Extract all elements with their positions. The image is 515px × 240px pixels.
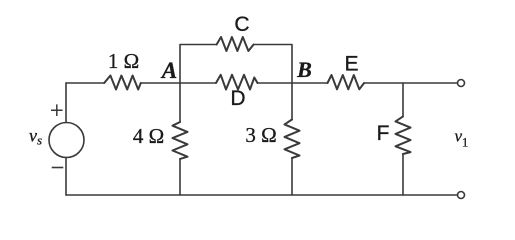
wire B segment <box>258 82 328 84</box>
svg-text:1 Ω: 1 Ω <box>108 49 139 73</box>
svg-text:C: C <box>234 13 249 36</box>
wire A segment <box>141 82 216 84</box>
wire top branch with C <box>180 45 217 84</box>
wire bottom main <box>66 194 458 196</box>
resistor C zigzag <box>217 37 254 51</box>
resistor F zigzag <box>396 116 411 154</box>
wire B down lead <box>291 83 293 120</box>
terminal top-right <box>458 80 465 87</box>
wire source bottom lead <box>65 158 67 196</box>
svg-text:A: A <box>160 58 177 83</box>
wire top main <box>66 82 104 84</box>
label plus sign <box>51 104 63 116</box>
label minus sign <box>52 167 64 169</box>
resistor 4-ohm zigzag <box>173 122 188 159</box>
resistor D zigzag <box>216 75 258 90</box>
svg-text:F: F <box>377 122 390 145</box>
resistor 3-ohm zigzag <box>285 120 300 159</box>
svg-text:B: B <box>296 57 312 82</box>
wire F down lead <box>402 83 404 116</box>
wire A down lead <box>179 83 181 122</box>
terminal bottom-right <box>458 192 465 199</box>
svg-text:4 Ω: 4 Ω <box>133 124 164 148</box>
svg-text:v1: v1 <box>455 127 469 150</box>
wire to top-right terminal <box>364 82 457 84</box>
svg-text:vs: vs <box>29 126 42 148</box>
wire top branch right down to B <box>254 45 292 84</box>
resistor 1-ohm zigzag <box>104 76 141 90</box>
wire source top lead <box>65 83 67 123</box>
resistor E zigzag <box>328 75 365 89</box>
wire B bottom lead <box>291 158 293 195</box>
voltage source vs circle <box>49 123 84 158</box>
wire F bottom lead <box>402 154 404 195</box>
svg-text:3 Ω: 3 Ω <box>245 123 276 147</box>
wire A bottom lead <box>179 159 181 195</box>
svg-text:E: E <box>344 53 358 76</box>
svg-text:D: D <box>230 87 245 110</box>
